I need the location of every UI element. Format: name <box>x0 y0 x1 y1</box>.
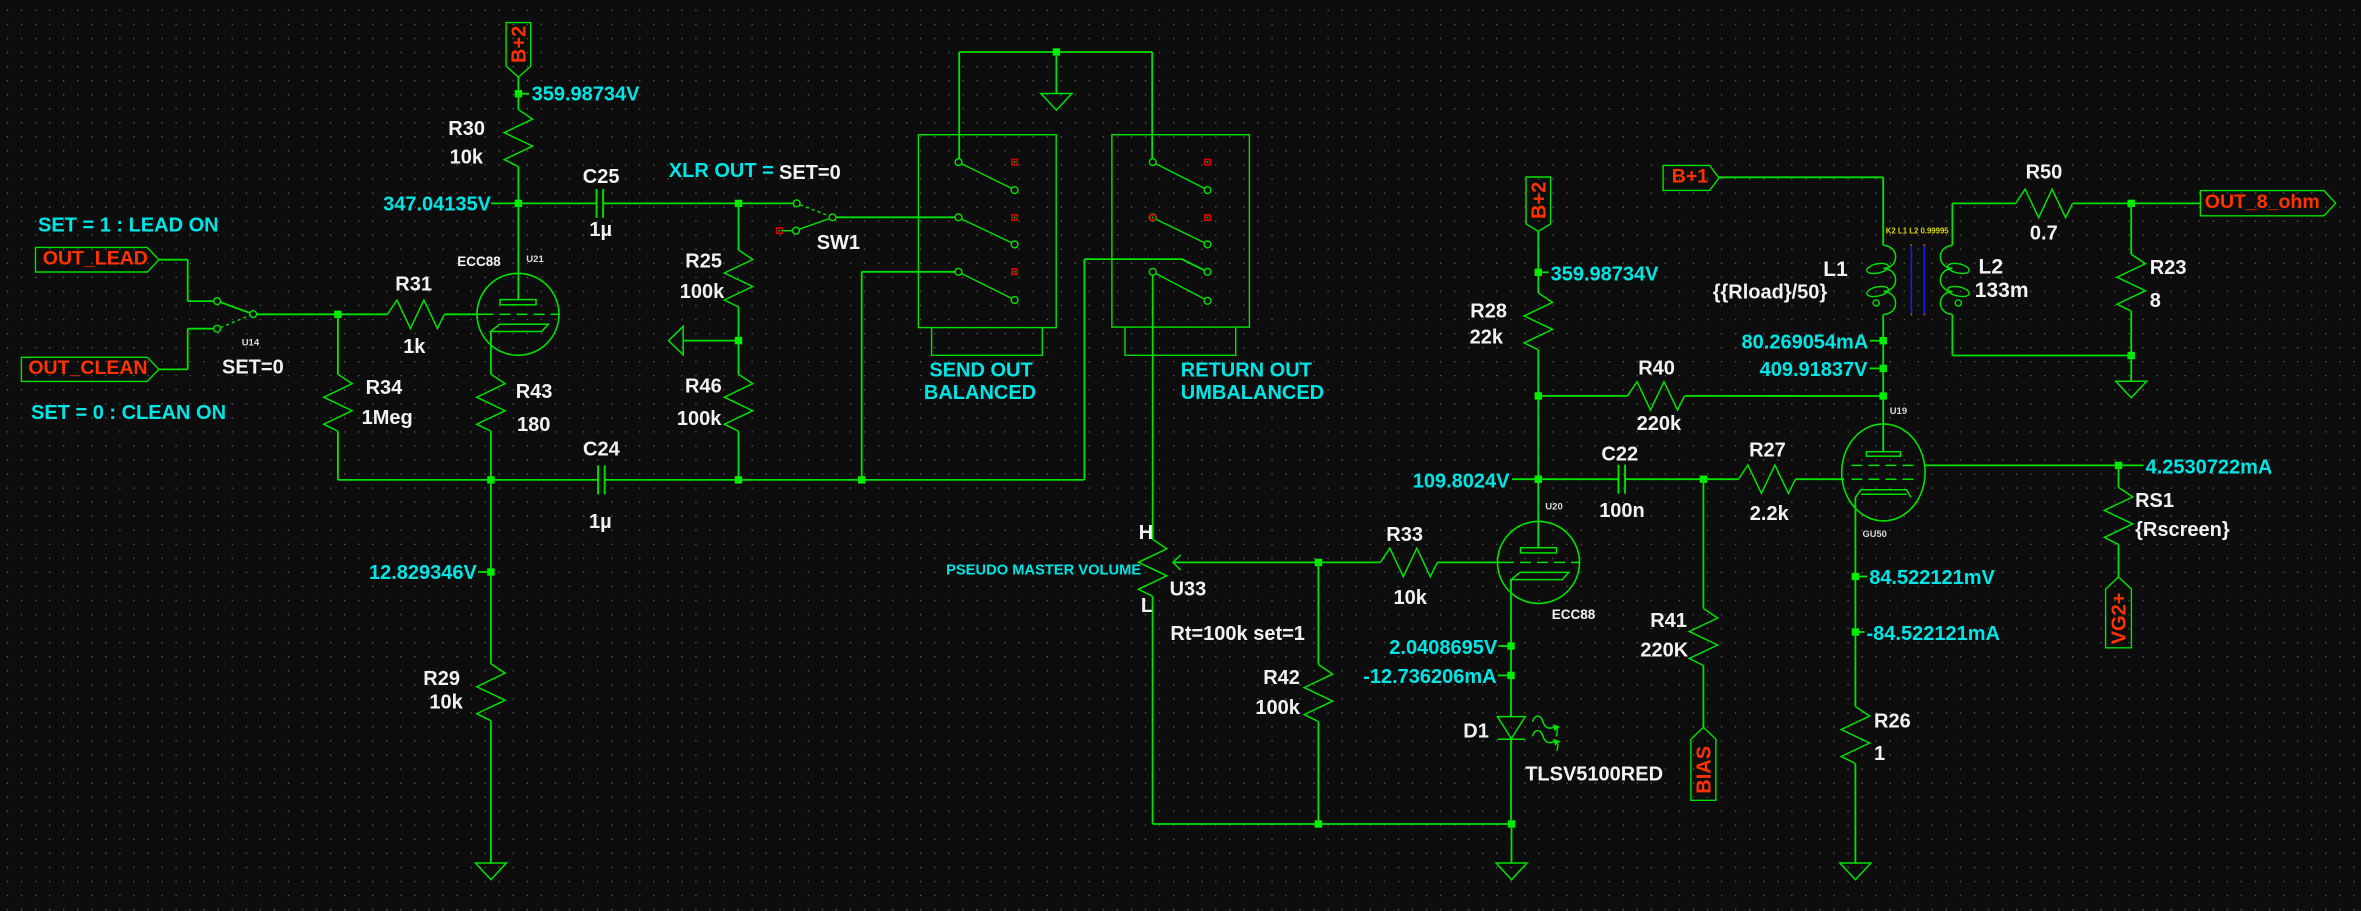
svg-text:R31: R31 <box>395 273 432 295</box>
svg-text:R23: R23 <box>2150 257 2187 279</box>
svg-text:TLSV5100RED: TLSV5100RED <box>1525 764 1663 786</box>
svg-text:R43: R43 <box>516 381 553 403</box>
junction <box>1700 476 1707 483</box>
wire <box>338 479 598 481</box>
wire voltage leader <box>1859 576 1867 578</box>
junction <box>735 337 742 344</box>
svg-text:K2 L1 L2 0.99995: K2 L1 L2 0.99995 <box>1886 226 1950 235</box>
wire <box>187 329 189 370</box>
resistor R40 <box>1628 382 1685 410</box>
junction <box>2128 200 2135 207</box>
svg-text:UMBALANCED: UMBALANCED <box>1181 382 1324 404</box>
svg-text:R33: R33 <box>1386 524 1423 546</box>
wire <box>1083 259 1085 480</box>
junction <box>1053 48 1060 55</box>
wire <box>517 94 519 110</box>
junction <box>1507 642 1514 649</box>
svg-text:OUT_CLEAN: OUT_CLEAN <box>28 357 147 379</box>
svg-text:R26: R26 <box>1874 711 1911 733</box>
net flag VG2+ <box>2106 577 2132 648</box>
ground (R23) <box>2116 381 2147 398</box>
wire current leader <box>2122 464 2144 466</box>
resistor R33 <box>1380 548 1437 576</box>
svg-text:180: 180 <box>517 414 550 436</box>
net flag B+2 <box>506 23 531 78</box>
junction <box>487 568 494 575</box>
tube U19 (pentode) <box>1842 424 1925 521</box>
svg-text:R30: R30 <box>448 118 485 140</box>
wire <box>1625 478 1703 480</box>
svg-text:2.0408695V: 2.0408695V <box>1389 637 1498 659</box>
screen wire <box>1925 464 2118 466</box>
wire <box>1882 315 1884 452</box>
svg-text:10k: 10k <box>1394 587 1428 609</box>
wire <box>337 314 339 374</box>
svg-text:10k: 10k <box>450 146 484 168</box>
svg-text:80.269054mA: 80.269054mA <box>1742 331 1869 353</box>
svg-text:U19: U19 <box>1890 406 1907 417</box>
svg-text:Rt=100k set=1: Rt=100k set=1 <box>1170 623 1305 645</box>
wire voltage leader <box>1542 271 1549 273</box>
switch box RETURN (frame) <box>1112 135 1250 327</box>
wire <box>1952 202 2015 204</box>
svg-text:C25: C25 <box>583 166 620 188</box>
wire <box>861 272 863 480</box>
wire voltage leader <box>1870 367 1880 369</box>
svg-text:R41: R41 <box>1650 610 1687 632</box>
switch U14 <box>214 298 221 305</box>
wire <box>1537 231 1539 272</box>
svg-text:22k: 22k <box>1470 327 1504 349</box>
svg-text:SET = 0 : CLEAN ON: SET = 0 : CLEAN ON <box>31 402 226 424</box>
svg-text:D1: D1 <box>1463 721 1489 743</box>
svg-text:2.2k: 2.2k <box>1750 503 1790 525</box>
cathode lead U21 <box>490 331 492 374</box>
transformer core <box>1910 245 1912 314</box>
wire <box>1510 739 1512 824</box>
resistor R42 <box>1304 665 1332 722</box>
wire <box>2118 544 2120 577</box>
wire <box>1055 52 1057 94</box>
svg-text:VG2+: VG2+ <box>2109 593 2131 645</box>
junction <box>1852 573 1859 580</box>
svg-text:R29: R29 <box>423 668 460 690</box>
wire <box>1538 395 1627 397</box>
switch SEND row1 <box>955 159 962 166</box>
switch RETURN row1 <box>1149 159 1156 166</box>
ground (R26) <box>1840 863 1871 880</box>
wire voltage leader <box>491 202 518 204</box>
junction <box>515 90 522 97</box>
wire <box>1151 52 1153 159</box>
junction <box>735 200 742 207</box>
net flag B+2 (right) <box>1526 177 1551 231</box>
svg-text:U21: U21 <box>526 254 544 265</box>
net flag OUT_LEAD <box>36 247 159 272</box>
svg-text:XLR OUT =: XLR OUT = <box>669 160 774 182</box>
wire <box>518 202 596 204</box>
junction <box>487 476 494 483</box>
wire <box>517 167 519 204</box>
wire <box>1537 272 1539 293</box>
resistor R30 <box>504 110 532 167</box>
capacitor C22 <box>1617 465 1619 494</box>
svg-text:409.91837V: 409.91837V <box>1760 359 1869 381</box>
svg-text:B+2: B+2 <box>1528 182 1550 219</box>
net flag OUT_8_ohm <box>2200 191 2335 216</box>
wire <box>188 328 214 330</box>
svg-text:ECC88: ECC88 <box>457 254 501 269</box>
wire <box>1318 561 1380 563</box>
junction <box>515 200 522 207</box>
svg-text:GU50: GU50 <box>1863 529 1887 539</box>
switch RETURN row3 <box>1149 268 1156 275</box>
svg-text:4.2530722mA: 4.2530722mA <box>2146 456 2273 478</box>
svg-text:{{Rload}/50}: {{Rload}/50} <box>1713 282 1828 304</box>
junction <box>1880 337 1887 344</box>
svg-text:B+2: B+2 <box>508 26 530 63</box>
junction <box>1535 392 1542 399</box>
resistor R43 <box>477 374 505 431</box>
svg-text:R42: R42 <box>1263 667 1300 689</box>
capacitor C25 <box>596 189 598 218</box>
junction <box>1852 628 1859 635</box>
wire <box>1538 478 1618 480</box>
wire <box>2130 311 2132 355</box>
wire <box>2073 202 2201 204</box>
wire <box>1703 478 1738 480</box>
svg-text:L1: L1 <box>1823 258 1848 281</box>
switch RETURN row2 <box>1149 214 1156 221</box>
resistor R31 <box>387 300 444 328</box>
wire current leader <box>1498 674 1508 676</box>
tube U21 (triode) <box>477 273 559 355</box>
resistor R50 <box>2016 189 2073 217</box>
wire <box>159 259 188 261</box>
wire <box>490 480 492 664</box>
svg-text:B+1: B+1 <box>1672 166 1708 188</box>
svg-text:H: H <box>1139 522 1153 544</box>
svg-text:359.98734V: 359.98734V <box>1551 263 1660 285</box>
wire <box>958 52 960 159</box>
junction <box>1880 365 1887 372</box>
wire <box>187 260 189 301</box>
resistor RS1 <box>2104 487 2132 544</box>
junction <box>1508 820 1515 827</box>
resistor R25 <box>724 250 752 307</box>
wire <box>337 431 339 480</box>
wire voltage leader <box>521 93 529 95</box>
svg-text:1µ: 1µ <box>589 219 612 241</box>
resistor R34 <box>324 374 352 431</box>
wire <box>836 216 955 218</box>
ground <box>1041 94 1072 111</box>
svg-text:BALANCED: BALANCED <box>924 382 1036 404</box>
resistor R46 <box>724 374 752 431</box>
wire <box>1537 350 1539 479</box>
wire <box>862 271 956 273</box>
wire <box>1702 666 1704 728</box>
wire <box>490 721 492 863</box>
svg-text:-84.522121mA: -84.522121mA <box>1867 623 2000 645</box>
ground <box>475 863 506 880</box>
junction <box>2115 462 2122 469</box>
svg-text:8: 8 <box>2150 290 2161 312</box>
junction <box>1535 269 1542 276</box>
wire <box>738 307 740 341</box>
svg-text:SW1: SW1 <box>817 232 860 254</box>
net flag OUT_CLEAN <box>21 357 158 381</box>
switch SEND row2 <box>955 214 962 221</box>
svg-text:L: L <box>1141 595 1153 617</box>
svg-text:R28: R28 <box>1470 301 1507 323</box>
svg-text:SET=0: SET=0 <box>779 162 841 184</box>
tube U20 (triode) <box>1498 521 1580 603</box>
svg-text:R25: R25 <box>685 251 722 273</box>
LED arrows <box>1533 716 1558 728</box>
svg-text:1k: 1k <box>403 336 426 358</box>
resistor R27 <box>1738 465 1795 493</box>
resistor R41 <box>1689 609 1717 666</box>
wire <box>1854 764 1856 864</box>
svg-text:133m: 133m <box>1975 279 2029 302</box>
resistor U33 potentiometer <box>1138 539 1166 596</box>
wire <box>2130 203 2132 254</box>
svg-text:SEND OUT: SEND OUT <box>929 359 1032 381</box>
junction <box>1315 559 1322 566</box>
svg-text:R40: R40 <box>1638 357 1675 379</box>
svg-text:0.7: 0.7 <box>2030 222 2058 244</box>
wire <box>1952 355 2131 357</box>
wire <box>1084 258 1181 260</box>
wire <box>959 51 1152 53</box>
switch box SEND (frame) <box>918 135 1056 328</box>
wire <box>738 431 740 480</box>
wire <box>1317 562 1319 664</box>
wire <box>444 313 477 315</box>
junction <box>1880 392 1887 399</box>
net flag BIAS <box>1691 727 1716 800</box>
wire <box>1719 176 1883 178</box>
inductor L1 <box>1884 245 1896 268</box>
wire <box>1685 395 1884 397</box>
wire <box>1511 824 1513 863</box>
wire <box>159 368 188 370</box>
capacitor C24 <box>597 465 599 494</box>
switch SW1 <box>793 200 800 207</box>
svg-text:10k: 10k <box>429 692 463 714</box>
arrow tap <box>669 326 684 355</box>
svg-text:100n: 100n <box>1599 500 1645 522</box>
wire <box>2130 356 2132 382</box>
wire <box>2118 465 2120 487</box>
svg-text:RS1: RS1 <box>2135 490 2174 512</box>
junction <box>1507 672 1514 679</box>
svg-text:PSEUDO MASTER VOLUME: PSEUDO MASTER VOLUME <box>946 562 1141 578</box>
junction <box>735 476 742 483</box>
junction <box>334 311 341 318</box>
svg-text:347.04135V: 347.04135V <box>383 193 492 215</box>
wire <box>1795 478 1844 480</box>
plate lead U21 <box>517 203 519 300</box>
wire <box>1152 596 1154 824</box>
svg-text:R50: R50 <box>2026 162 2063 184</box>
svg-text:109.8024V: 109.8024V <box>1413 470 1510 492</box>
svg-text:U20: U20 <box>1545 502 1562 513</box>
wire <box>1951 315 1953 356</box>
svg-text:84.522121mV: 84.522121mV <box>1869 567 1995 589</box>
svg-text:359.98734V: 359.98734V <box>532 84 641 106</box>
wire <box>1317 722 1319 824</box>
inductor L2 <box>1940 245 1952 268</box>
wire <box>605 479 1085 481</box>
resistor R23 <box>2117 254 2145 311</box>
junction <box>1535 476 1542 483</box>
resistor R26 <box>1841 707 1869 764</box>
svg-text:ECC88: ECC88 <box>1552 607 1596 622</box>
svg-text:220K: 220K <box>1640 640 1688 662</box>
wire current leader <box>1859 631 1865 633</box>
resistor R29 <box>477 664 505 721</box>
svg-text:SET = 1 : LEAD ON: SET = 1 : LEAD ON <box>38 215 219 237</box>
junction <box>1315 820 1322 827</box>
svg-text:R27: R27 <box>1749 439 1786 461</box>
plate lead U20 <box>1537 479 1539 548</box>
svg-text:100k: 100k <box>1255 697 1300 719</box>
svg-text:OUT_8_ohm: OUT_8_ohm <box>2205 191 2320 213</box>
wire voltage leader <box>1498 645 1507 647</box>
wire <box>738 203 740 250</box>
svg-text:12.829346V: 12.829346V <box>369 562 478 584</box>
svg-text:R46: R46 <box>685 376 722 398</box>
wire <box>490 431 492 480</box>
junction <box>858 476 865 483</box>
wire voltage leader <box>478 571 487 573</box>
svg-text:-12.736206mA: -12.736206mA <box>1363 666 1496 688</box>
wire <box>603 202 738 204</box>
wire <box>517 77 519 94</box>
wire <box>188 300 214 302</box>
wire (diagonal feed) <box>1182 259 1205 270</box>
svg-text:OUT_LEAD: OUT_LEAD <box>43 248 148 270</box>
svg-text:U33: U33 <box>1170 579 1207 601</box>
wire <box>1153 823 1512 825</box>
resistor R28 <box>1524 293 1552 350</box>
svg-text:1: 1 <box>1874 743 1885 765</box>
diode D1 (LED) <box>1497 717 1525 739</box>
svg-text:{Rscreen}: {Rscreen} <box>2135 519 2230 541</box>
wire voltage leader <box>1512 478 1535 480</box>
svg-text:BIAS: BIAS <box>1694 746 1716 794</box>
svg-text:L2: L2 <box>1979 256 2004 279</box>
junction <box>2128 352 2135 359</box>
wire <box>1882 177 1884 245</box>
wire <box>338 313 388 315</box>
wire <box>1702 479 1704 608</box>
svg-text:RETURN OUT: RETURN OUT <box>1181 359 1312 381</box>
ground (D1) <box>1496 863 1527 880</box>
wire <box>739 202 794 204</box>
wire <box>1437 561 1499 563</box>
cathode lead U20 <box>1510 580 1512 717</box>
wire current leader <box>1870 340 1880 342</box>
wire <box>1152 275 1154 539</box>
wire <box>738 341 740 375</box>
svg-text:100k: 100k <box>677 408 722 430</box>
svg-text:SET=0: SET=0 <box>222 356 284 378</box>
svg-text:100k: 100k <box>680 281 725 303</box>
svg-text:C22: C22 <box>1601 444 1638 466</box>
wire <box>257 313 338 315</box>
wiper arrow U33 <box>1173 555 1181 570</box>
net flag B+1 <box>1663 165 1719 190</box>
svg-text:U14: U14 <box>242 337 260 348</box>
svg-text:1Meg: 1Meg <box>362 407 413 429</box>
svg-text:R34: R34 <box>366 377 404 399</box>
cathode lead U19 <box>1854 498 1856 707</box>
wire <box>1951 203 1953 245</box>
switch SEND row3 <box>955 268 962 275</box>
svg-text:C24: C24 <box>583 438 621 460</box>
svg-text:1µ: 1µ <box>589 511 612 533</box>
svg-text:220k: 220k <box>1637 413 1682 435</box>
